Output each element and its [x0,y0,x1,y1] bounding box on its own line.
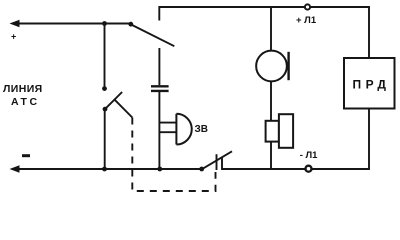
svg-text:ПРД: ПРД [353,78,391,92]
svg-text:ЛИНИЯ: ЛИНИЯ [3,83,43,95]
svg-text:+ Л1: + Л1 [296,15,317,26]
svg-text:- Л1: - Л1 [300,150,318,161]
svg-text:+: + [11,32,16,42]
svg-text:ЗВ: ЗВ [195,124,209,135]
svg-text:АТС: АТС [11,96,40,108]
